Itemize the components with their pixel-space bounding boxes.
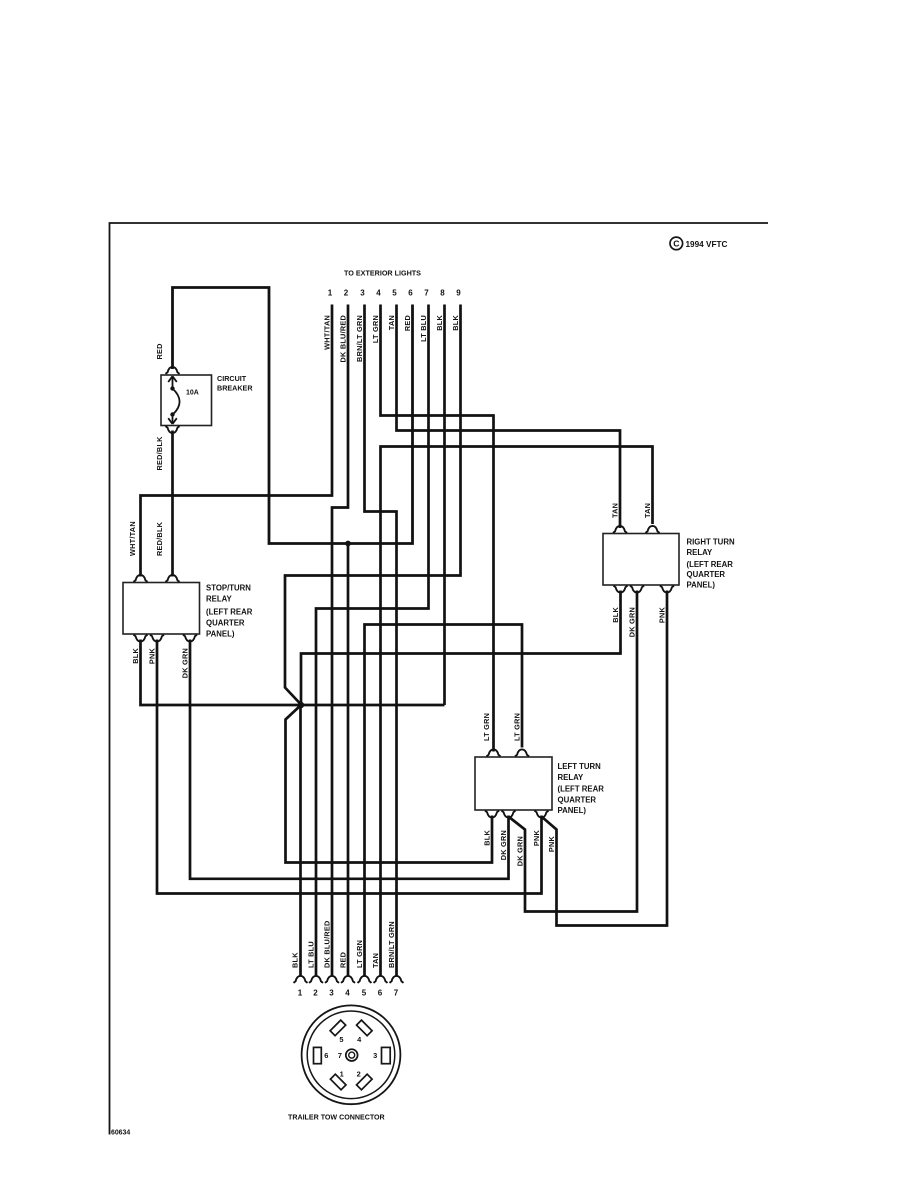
wire BLK ground junction to right turn relay (301, 591, 621, 706)
svg-text:4: 4 (376, 289, 381, 298)
svg-text:LEFT TURN: LEFT TURN (558, 762, 602, 771)
wire TAN exterior pin 5 to right turn relay (387, 305, 620, 529)
svg-text:DK GRN: DK GRN (181, 648, 190, 678)
svg-text:9: 9 (456, 289, 461, 298)
svg-text:WHT/TAN: WHT/TAN (323, 315, 332, 350)
svg-text:TAN: TAN (611, 503, 620, 518)
svg-text:QUARTER: QUARTER (558, 795, 597, 804)
svg-text:RED: RED (339, 952, 348, 968)
svg-text:LT GRN: LT GRN (482, 713, 491, 741)
svg-text:BRN/LT GRN: BRN/LT GRN (387, 921, 396, 968)
svg-text:LT BLU: LT BLU (419, 315, 428, 342)
svg-text:60634: 60634 (111, 1130, 130, 1137)
svg-text:PNK: PNK (547, 836, 556, 853)
svg-text:RELAY: RELAY (558, 773, 585, 782)
svg-text:5: 5 (362, 989, 367, 998)
svg-text:7: 7 (338, 1051, 342, 1060)
trailer tow connector (288, 1005, 400, 1121)
svg-text:DK BLU/RED: DK BLU/RED (339, 315, 348, 363)
svg-text:PANEL): PANEL) (558, 806, 587, 815)
svg-text:(LEFT REAR: (LEFT REAR (558, 785, 605, 794)
svg-text:LT GRN: LT GRN (371, 315, 380, 343)
relay STOP/TURN (left rear quarter panel) (123, 575, 253, 642)
svg-text:(LEFT REAR: (LEFT REAR (687, 560, 734, 569)
svg-text:4: 4 (345, 989, 350, 998)
svg-text:RED/BLK: RED/BLK (155, 521, 164, 556)
circuit breaker 10A (161, 367, 253, 433)
svg-text:LT BLU: LT BLU (307, 941, 316, 968)
svg-text:C: C (673, 239, 679, 249)
svg-text:PANEL): PANEL) (206, 629, 235, 638)
svg-text:LT GRN: LT GRN (513, 713, 522, 741)
exterior lights pin numbers 1-9 (328, 289, 462, 298)
wire PNK stop/turn relay to left turn relay (148, 640, 542, 894)
svg-text:CIRCUIT: CIRCUIT (217, 374, 247, 383)
wire BLK exterior pin 9 to ground junction (285, 305, 461, 705)
svg-text:5: 5 (339, 1035, 343, 1044)
svg-text:DK BLU/RED: DK BLU/RED (323, 921, 332, 969)
svg-text:PNK: PNK (148, 648, 157, 665)
wire LT BLU exterior pin 7 to trailer pin 2 (307, 305, 429, 977)
svg-text:5: 5 (392, 289, 397, 298)
wire WHT/TAN exterior pin 1 to stop/turn relay (128, 305, 332, 577)
svg-text:WHT/TAN: WHT/TAN (128, 521, 137, 556)
wire BLK ground junction to trailer pin 1 (291, 705, 301, 977)
svg-text:DK GRN: DK GRN (628, 607, 637, 637)
svg-text:LT GRN: LT GRN (355, 940, 364, 968)
svg-text:6: 6 (408, 289, 413, 298)
svg-text:7: 7 (394, 989, 399, 998)
svg-text:RIGHT TURN: RIGHT TURN (687, 538, 735, 547)
svg-text:BLK: BLK (611, 607, 620, 623)
svg-text:BLK: BLK (483, 830, 492, 846)
svg-text:DK GRN: DK GRN (499, 830, 508, 860)
wire DK GRN left turn relay to right turn relay (509, 591, 637, 912)
svg-text:1994 VFTC: 1994 VFTC (686, 240, 728, 249)
svg-text:3: 3 (329, 989, 334, 998)
relay RIGHT TURN (left rear quarter panel) (603, 526, 735, 593)
svg-text:STOP/TURN: STOP/TURN (206, 584, 251, 593)
svg-text:7: 7 (424, 289, 429, 298)
wire BLK ground junction to left turn relay (286, 705, 493, 863)
svg-text:PANEL): PANEL) (687, 581, 716, 590)
svg-text:3: 3 (373, 1051, 377, 1060)
svg-text:8: 8 (440, 289, 445, 298)
svg-text:TO EXTERIOR LIGHTS: TO EXTERIOR LIGHTS (344, 269, 421, 278)
svg-text:TAN: TAN (643, 503, 652, 518)
svg-text:RED: RED (403, 315, 412, 331)
svg-text:PNK: PNK (658, 607, 667, 624)
svg-text:BREAKER: BREAKER (217, 383, 253, 392)
svg-text:DK GRN: DK GRN (516, 836, 525, 866)
ground junction dot (298, 702, 304, 708)
svg-text:6: 6 (324, 1051, 328, 1060)
svg-text:QUARTER: QUARTER (687, 570, 726, 579)
svg-text:1: 1 (328, 289, 333, 298)
svg-text:10A: 10A (186, 390, 199, 397)
wire DK BLU/RED exterior pin 2 to trailer pin 3 (323, 305, 349, 977)
svg-text:1: 1 (340, 1070, 344, 1079)
svg-text:RELAY: RELAY (687, 548, 714, 557)
wire DK GRN stop/turn relay to left turn relay (181, 640, 509, 879)
wire PNK left turn relay to right turn relay (542, 591, 667, 926)
svg-text:RED: RED (155, 343, 164, 359)
wire TAN right turn relay to trailer pin 6 (371, 447, 653, 977)
svg-text:TRAILER TOW CONNECTOR: TRAILER TOW CONNECTOR (288, 1114, 385, 1122)
wire LT GRN left turn relay to trailer pin 5 (355, 625, 522, 977)
svg-text:BLK: BLK (451, 315, 460, 331)
svg-text:2: 2 (357, 1070, 361, 1079)
trailer connector lead terminals pins 1-7 (294, 976, 404, 998)
svg-text:QUARTER: QUARTER (206, 619, 245, 628)
svg-text:1: 1 (298, 989, 303, 998)
svg-text:TAN: TAN (371, 953, 380, 968)
wire BLK stop/turn relay to ground junction bus (131, 640, 445, 706)
wire BLK exterior pin 8 to ground junction (435, 305, 445, 706)
wire LT GRN exterior pin 4 to left turn relay (371, 305, 494, 752)
svg-text:2: 2 (344, 289, 349, 298)
svg-text:BLK: BLK (131, 648, 140, 664)
relay LEFT TURN (left rear quarter panel) (475, 749, 604, 817)
svg-text:RED/BLK: RED/BLK (155, 436, 164, 471)
svg-text:TAN: TAN (387, 315, 396, 330)
svg-text:6: 6 (378, 989, 383, 998)
svg-text:BLK: BLK (291, 952, 300, 968)
svg-text:BRN/LT GRN: BRN/LT GRN (355, 315, 364, 362)
svg-text:(LEFT REAR: (LEFT REAR (206, 608, 253, 617)
svg-text:2: 2 (313, 989, 318, 998)
svg-text:3: 3 (360, 289, 365, 298)
svg-text:RELAY: RELAY (206, 595, 233, 604)
svg-text:PNK: PNK (532, 830, 541, 847)
wire RED exterior pin 6 to circuit breaker and trailer pin 4 (155, 288, 413, 977)
wire RED/BLK circuit breaker to stop/turn relay (155, 431, 173, 577)
wire BRN/LT GRN exterior pin 3 to trailer pin 7 (355, 305, 397, 977)
svg-text:BLK: BLK (435, 315, 444, 331)
